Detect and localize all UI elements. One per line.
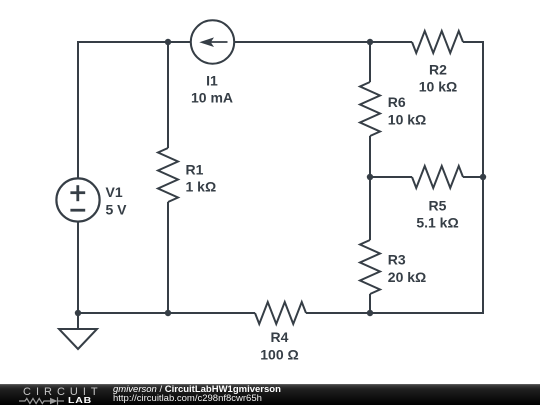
node dot top R6: [367, 39, 373, 45]
svg-text:R5: R5: [429, 197, 447, 213]
node dot mid left R5: [367, 174, 373, 180]
svg-text:R6: R6: [388, 94, 406, 110]
wire R5 right: [463, 176, 483, 178]
svg-text:100 Ω: 100 Ω: [260, 347, 298, 363]
label R3: [388, 252, 426, 285]
current source I1 arrow: [199, 37, 227, 47]
svg-text:10 kΩ: 10 kΩ: [419, 78, 457, 94]
svg-text:10 kΩ: 10 kΩ: [388, 112, 426, 128]
wire R1 bottom: [167, 202, 169, 313]
label I1: [191, 72, 233, 105]
wire R5 left: [370, 176, 412, 178]
label R5: [416, 197, 458, 230]
label V1: [106, 184, 128, 217]
footer text line 2: [113, 393, 262, 404]
footer text line 1: [113, 384, 281, 395]
V1 minus sign: [70, 209, 85, 212]
V1 plus sign: [70, 185, 85, 201]
ground: [59, 313, 97, 349]
svg-text:5.1 kΩ: 5.1 kΩ: [416, 214, 458, 230]
svg-text:10 mA: 10 mA: [191, 89, 233, 105]
wire top-right corner + right vertical + bottom-right: [306, 42, 483, 313]
resistor R1: [158, 148, 178, 202]
wire R6 bottom: [369, 136, 371, 177]
resistor R2: [412, 31, 463, 53]
resistor R6: [360, 82, 380, 136]
label R4: [260, 329, 298, 362]
wire top-left corner (V1 top to I1): [78, 42, 191, 179]
resistor R5: [412, 166, 463, 188]
wire left vertical (V1 bottom) + bottom-left: [78, 222, 255, 314]
svg-text:R3: R3: [388, 252, 406, 268]
CircuitLab logo: [19, 386, 109, 405]
node dot bottom ground: [75, 310, 81, 316]
resistor R3: [360, 240, 380, 294]
wire top-middle horizontal: [234, 41, 413, 43]
label R2: [419, 61, 457, 94]
label R6: [388, 94, 426, 127]
wire R3 bottom: [369, 294, 371, 313]
node dot mid right R5: [480, 174, 486, 180]
svg-text:R4: R4: [271, 329, 289, 345]
label R1: [186, 161, 217, 194]
svg-text:R1: R1: [186, 161, 204, 177]
svg-text:V1: V1: [106, 184, 123, 200]
wire R3 top: [369, 177, 371, 240]
svg-text:I1: I1: [206, 72, 218, 88]
node dot bottom R3: [367, 310, 373, 316]
node dot top R1: [165, 39, 171, 45]
svg-text:20 kΩ: 20 kΩ: [388, 269, 426, 285]
wire R6 top: [369, 42, 371, 82]
svg-text:R2: R2: [429, 61, 447, 77]
logo diode: [50, 397, 58, 403]
current source I1: [191, 20, 234, 63]
resistor R4: [255, 302, 306, 324]
wire R1 top: [167, 42, 169, 148]
svg-text:5 V: 5 V: [106, 202, 128, 218]
voltage source V1: [56, 178, 99, 221]
footer bar: [0, 384, 540, 405]
svg-text:1 kΩ: 1 kΩ: [186, 179, 217, 195]
logo resistor squiggle: [19, 398, 50, 403]
node dot bottom R1: [165, 310, 171, 316]
